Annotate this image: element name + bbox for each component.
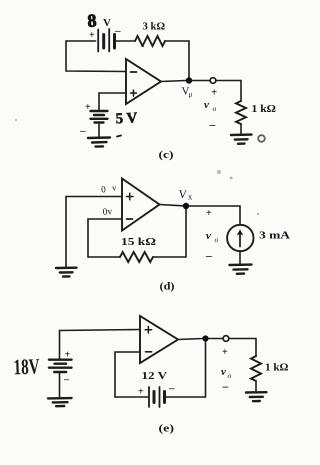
svg-text:+: +	[138, 387, 144, 398]
svg-text:–: –	[114, 25, 121, 37]
label - inverting input marker U1	[131, 71, 137, 73]
label Vo (handwritten node label)	[181, 85, 192, 98]
svg-text:+: +	[89, 30, 95, 41]
wire: resistor R2 to ground	[240, 124, 242, 135]
op-amp U2	[122, 179, 160, 231]
wire: inverting input of U2 down to feedback rail	[88, 219, 122, 257]
svg-text:–: –	[222, 381, 229, 393]
label vo (c)	[204, 99, 217, 113]
ground below 18V battery	[48, 398, 72, 406]
wire: 18V battery top to non-inverting input of U3	[60, 330, 141, 360]
arrow inside current source	[239, 232, 241, 247]
stray terminal ring right of ground (c)	[258, 135, 265, 142]
svg-text:V: V	[103, 17, 111, 29]
output terminal (open circle)	[210, 78, 216, 84]
wire: 18V battery to ground	[59, 372, 61, 398]
resistor R2 1 kOhm (vertical)	[236, 101, 246, 124]
op-amp U3	[140, 316, 178, 363]
label - inverting marker U2 (bottom)	[127, 218, 133, 220]
svg-text:15 kΩ: 15 kΩ	[121, 236, 156, 248]
label 8 V (handwritten value of V1)	[87, 10, 111, 31]
svg-text:18V: 18V	[13, 354, 40, 380]
svg-text:1 kΩ: 1 kΩ	[252, 103, 277, 115]
svg-text:–: –	[205, 251, 212, 263]
svg-text:–: –	[79, 125, 86, 137]
wire: battery to resistor R1	[116, 40, 135, 42]
label vo (d)	[206, 230, 219, 244]
wire: resistor to top-right corner, down to output node	[165, 41, 189, 78]
svg-text:+: +	[211, 87, 217, 99]
wire: resistor R4 to ground	[255, 381, 257, 392]
ground below R4	[246, 392, 267, 401]
battery V3 18V plates	[49, 360, 72, 372]
svg-text:0v: 0v	[102, 207, 112, 218]
op-amp U1	[126, 59, 161, 104]
svg-text:–: –	[63, 375, 70, 386]
wire: non-inverting input of U2 to ground	[66, 197, 122, 268]
svg-text:o: o	[213, 104, 217, 113]
ground left of circuit (d)	[56, 268, 77, 277]
wire: 5V battery to ground	[98, 123, 100, 138]
wire: node to output terminal	[192, 80, 210, 82]
label + non-inverting marker U3 (top)	[145, 326, 152, 333]
svg-text:+: +	[65, 350, 71, 361]
ground below 5V battery	[88, 138, 110, 147]
svg-text:o: o	[228, 371, 232, 380]
label vo (e)	[221, 366, 232, 380]
svg-text:(e): (e)	[159, 424, 175, 435]
battery V1 8V plates	[98, 29, 114, 52]
output terminal (open circle) (e)	[223, 336, 229, 342]
wire: feedback rail left segment	[88, 256, 120, 258]
svg-text:1 kΩ: 1 kΩ	[265, 362, 289, 374]
battery V4 12V plates	[149, 387, 165, 407]
svg-text:3 mA: 3 mA	[259, 230, 290, 242]
node junction dot (e)	[202, 335, 208, 341]
svg-text:+: +	[222, 347, 228, 358]
resistor R1 3 kOhm	[135, 36, 165, 46]
svg-text:v: v	[204, 99, 209, 111]
node Vo junction dot	[186, 77, 192, 83]
svg-text:–: –	[168, 383, 175, 395]
wire: node to current source	[189, 206, 240, 225]
wire: U2 output to node	[160, 205, 184, 206]
wire: feedback rail right segment up to output node	[153, 209, 186, 257]
svg-text:(d): (d)	[160, 282, 176, 293]
wire: terminal to 1k resistor	[216, 81, 241, 102]
label + non-inverting input marker U1	[131, 90, 137, 96]
scan noise specks	[15, 119, 259, 215]
stray handwritten dash near 5V battery	[117, 136, 121, 137]
battery V2 5V plates	[91, 111, 108, 123]
wire: top rail left segment (to 8V battery)	[66, 40, 96, 42]
wire: node to output terminal (e)	[209, 338, 224, 340]
svg-text:0: 0	[101, 184, 107, 194]
svg-text:+: +	[206, 208, 212, 219]
wire: terminal to 1k resistor (e)	[229, 339, 256, 357]
node Vx junction dot	[183, 203, 189, 209]
wire: current source to ground	[239, 251, 241, 264]
ground below current source	[230, 265, 252, 274]
svg-text:v: v	[221, 366, 226, 378]
svg-text:v: v	[112, 182, 118, 192]
svg-text:+: +	[85, 102, 91, 113]
ground below R2	[231, 135, 252, 144]
wire: rail right segment up to output node	[166, 342, 206, 398]
label + non-inverting marker U2 (top)	[127, 193, 134, 200]
svg-text:8: 8	[87, 10, 97, 31]
svg-text:(c): (c)	[159, 150, 175, 161]
handwritten 0 v annotation (top input)	[101, 182, 118, 194]
wire: non-inverting input to 5V battery	[99, 93, 126, 110]
svg-text:x: x	[188, 192, 193, 202]
wire: inverting input of U3 down to 12V battery rail	[115, 352, 140, 397]
wire: rail left segment to 12V battery	[115, 396, 149, 398]
wire: left feedback drop from top rail to inverting input	[66, 41, 126, 72]
svg-text:μ: μ	[189, 91, 193, 99]
resistor R4 1 kOhm (vertical, e)	[251, 356, 261, 381]
svg-text:o: o	[215, 235, 219, 244]
svg-text:–: –	[209, 120, 216, 132]
svg-text:V: V	[178, 189, 188, 202]
current source I1	[227, 225, 253, 251]
resistor R3 15 kOhm	[120, 252, 153, 262]
svg-text:3 kΩ: 3 kΩ	[143, 22, 166, 33]
label Vx (handwritten node label)	[178, 189, 193, 202]
wire: U3 output to node	[178, 339, 203, 340]
svg-text:12 V: 12 V	[142, 370, 168, 382]
svg-text:v: v	[206, 230, 211, 242]
svg-text:5 V: 5 V	[115, 110, 138, 127]
label - inverting marker U3 (bottom)	[146, 351, 152, 353]
wire: op-amp U1 output to node	[161, 81, 186, 82]
